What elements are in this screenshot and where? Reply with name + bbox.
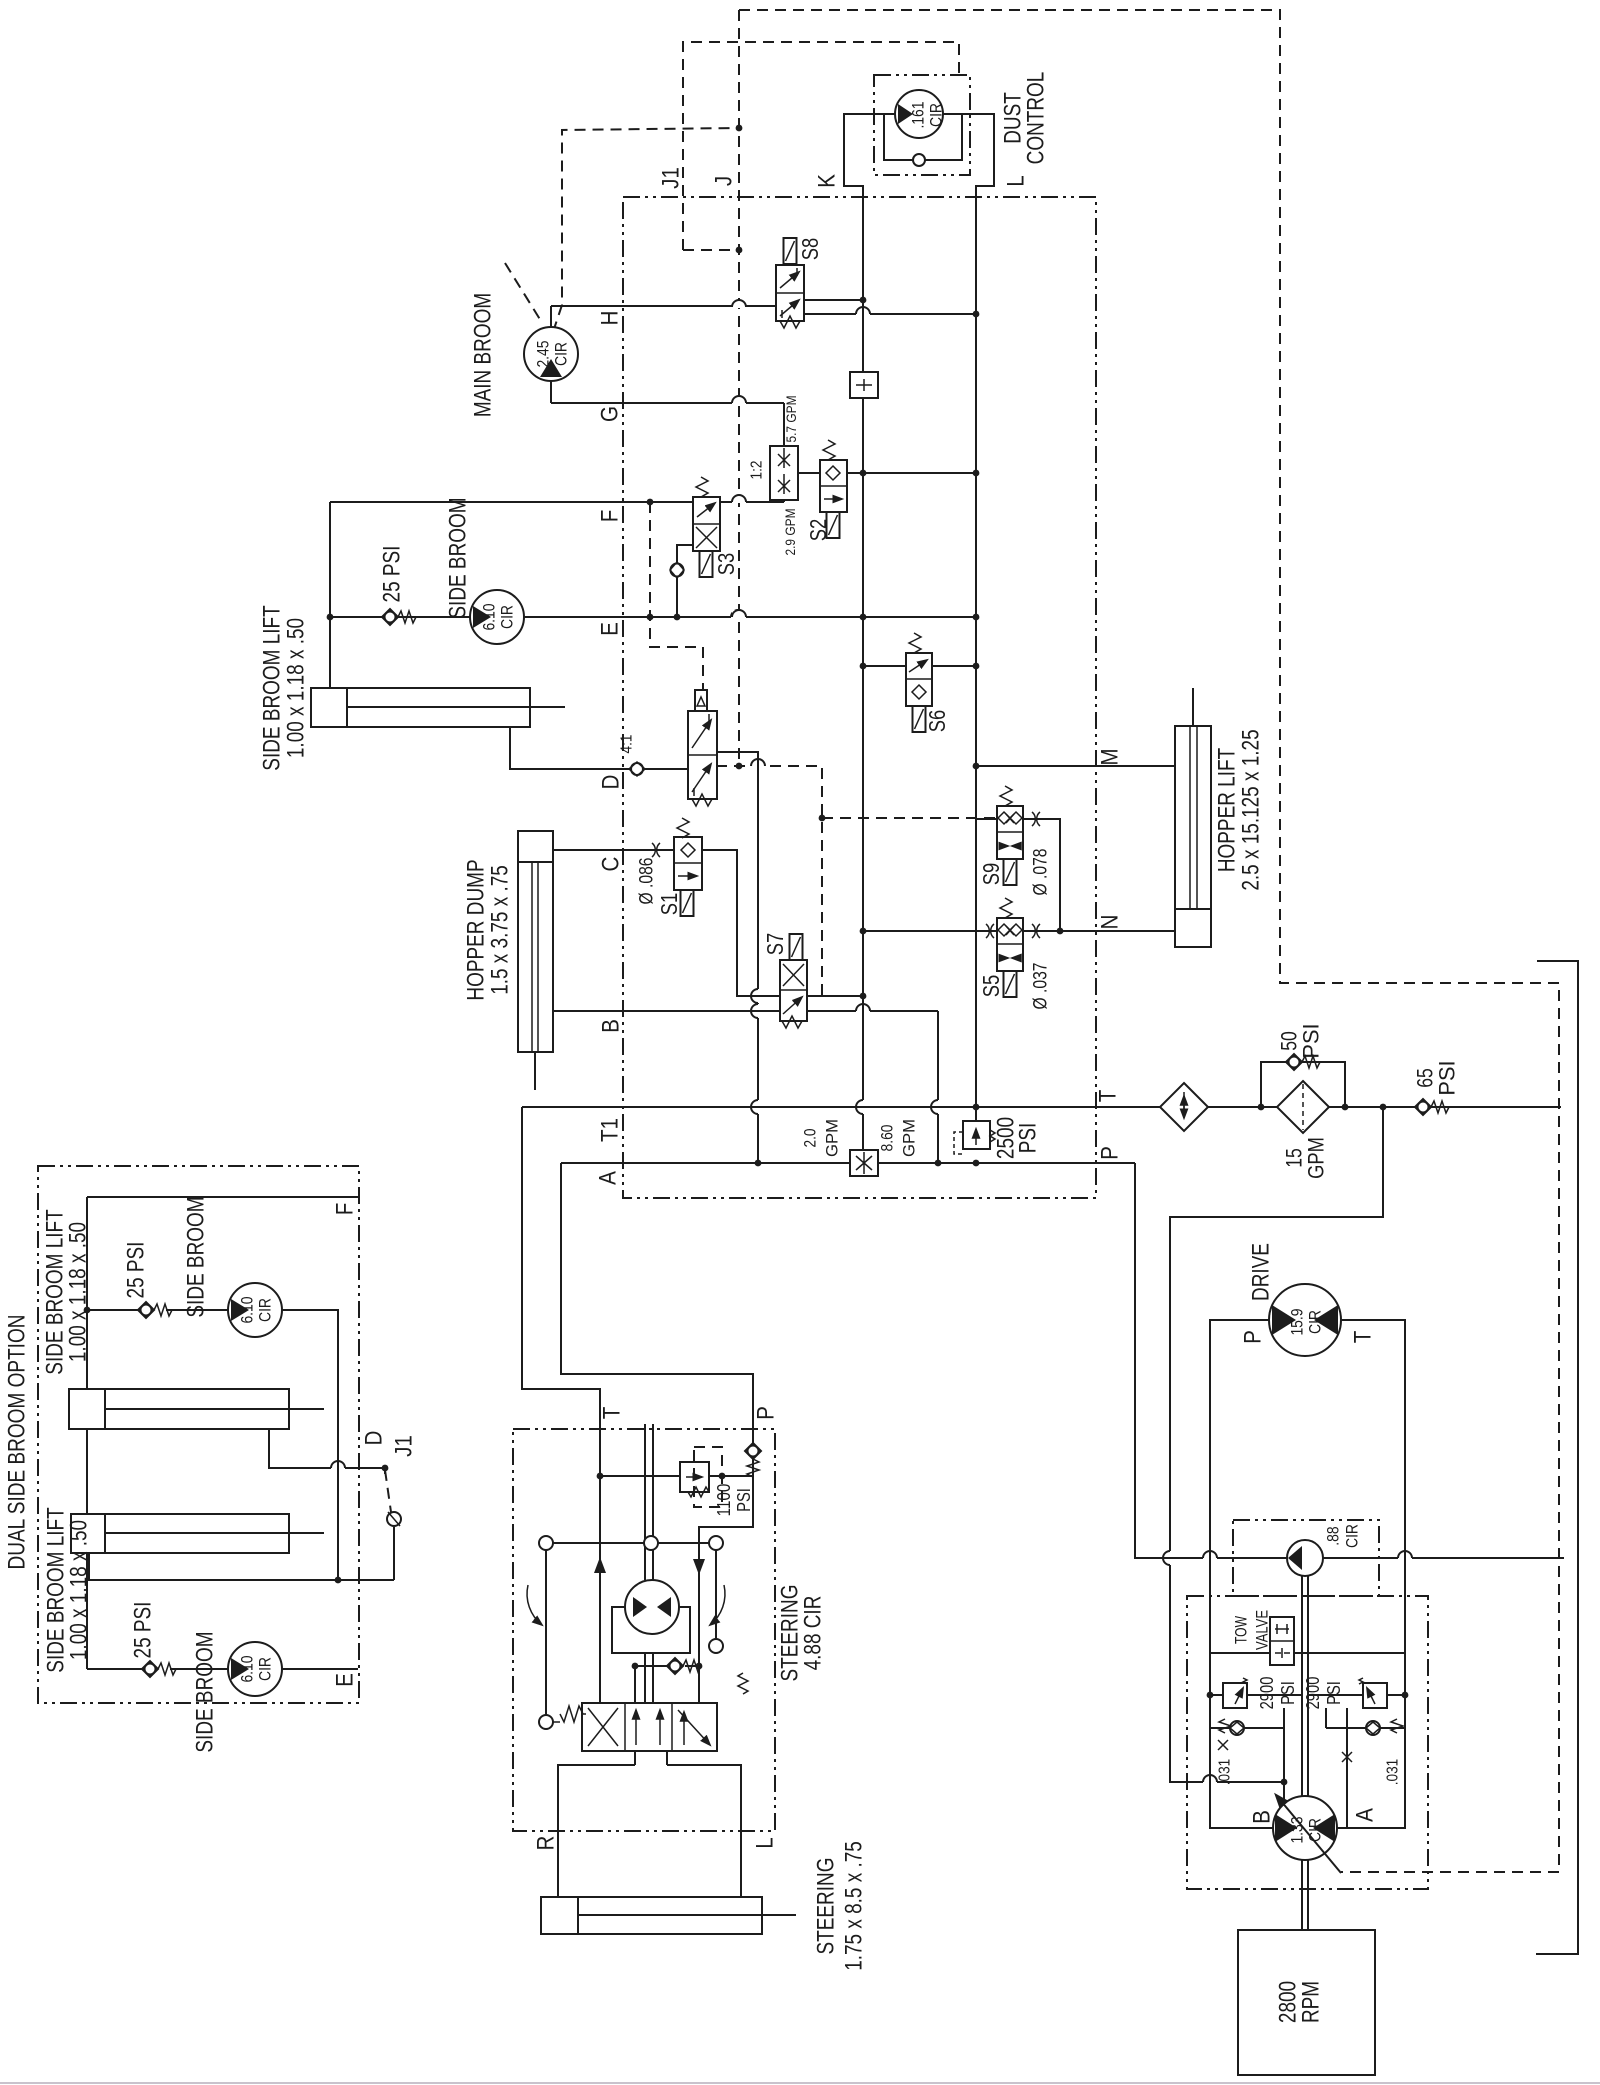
svg-text:K: K	[814, 174, 841, 188]
svg-text:M: M	[1097, 748, 1124, 765]
svg-text:6.10: 6.10	[238, 1655, 257, 1682]
svg-text:CONTROL: CONTROL	[1023, 72, 1050, 165]
svg-text:S9: S9	[978, 863, 1004, 886]
svg-text:T: T	[1350, 1330, 1377, 1343]
svg-text:T: T	[1095, 1089, 1122, 1102]
svg-text:.031: .031	[1385, 1759, 1402, 1786]
svg-text:4:1: 4:1	[619, 734, 636, 753]
svg-text:CIR: CIR	[552, 342, 571, 366]
svg-text:1.00 x 1.18 x .50: 1.00 x 1.18 x .50	[283, 618, 310, 758]
svg-text:F: F	[597, 510, 624, 523]
svg-text:PSI: PSI	[1299, 1023, 1324, 1058]
svg-text:2900: 2900	[1303, 1677, 1323, 1710]
svg-text:2.9 GPM: 2.9 GPM	[782, 509, 798, 556]
svg-text:S8: S8	[797, 238, 823, 261]
svg-text:R: R	[533, 1836, 560, 1851]
svg-text:SIDE BROOM LIFT: SIDE BROOM LIFT	[259, 605, 286, 771]
svg-text:1:2: 1:2	[749, 460, 766, 479]
svg-text:G: G	[597, 406, 624, 422]
svg-text:DUAL SIDE BROOM OPTION: DUAL SIDE BROOM OPTION	[4, 1315, 31, 1570]
svg-text:6.10: 6.10	[480, 603, 499, 630]
svg-text:1.5 x 3.75 x .75: 1.5 x 3.75 x .75	[487, 865, 514, 995]
svg-text:S3: S3	[713, 553, 739, 576]
svg-text:1100: 1100	[714, 1484, 734, 1517]
svg-text:1.75 x 8.5 x .75: 1.75 x 8.5 x .75	[841, 1841, 868, 1971]
svg-text:H: H	[597, 311, 624, 326]
svg-text:2900: 2900	[1257, 1677, 1277, 1710]
svg-text:MAIN BROOM: MAIN BROOM	[470, 293, 497, 417]
svg-text:SIDE BROOM: SIDE BROOM	[183, 1196, 210, 1317]
svg-text:L: L	[1003, 175, 1030, 187]
svg-text:RPM: RPM	[1298, 1981, 1325, 2023]
svg-text:S1: S1	[656, 893, 682, 916]
svg-text:1.00 x 1.18 x .50: 1.00 x 1.18 x .50	[66, 1520, 93, 1660]
svg-text:HOPPER DUMP: HOPPER DUMP	[463, 859, 490, 1000]
svg-text:VALVE: VALVE	[1253, 1610, 1272, 1650]
svg-text:A: A	[1352, 1808, 1379, 1822]
svg-text:.031: .031	[1217, 1759, 1234, 1786]
svg-text:PSI: PSI	[1435, 1060, 1460, 1095]
svg-text:PSI: PSI	[1015, 1123, 1042, 1154]
svg-text:1.33: 1.33	[1288, 1816, 1307, 1843]
svg-text:DRIVE: DRIVE	[1248, 1243, 1275, 1301]
svg-text:J1: J1	[391, 1435, 418, 1457]
svg-text:8.60: 8.60	[878, 1125, 897, 1152]
svg-text:F: F	[332, 1203, 359, 1216]
svg-text:J: J	[711, 176, 738, 186]
svg-text:CIR: CIR	[1343, 1524, 1362, 1548]
svg-text:HOPPER LIFT: HOPPER LIFT	[1214, 748, 1241, 873]
svg-text:25 PSI: 25 PSI	[130, 1602, 157, 1659]
svg-text:P: P	[1240, 1330, 1267, 1344]
svg-text:2.45: 2.45	[534, 340, 553, 367]
svg-text:CIR: CIR	[1306, 1310, 1325, 1334]
svg-text:P: P	[1097, 1146, 1124, 1160]
svg-text:S6: S6	[924, 710, 950, 733]
svg-text:2.0: 2.0	[801, 1129, 820, 1148]
svg-text:B: B	[598, 1019, 625, 1033]
svg-text:25 PSI: 25 PSI	[379, 546, 406, 603]
svg-text:E: E	[332, 1673, 359, 1687]
svg-text:.88: .88	[1324, 1526, 1343, 1545]
svg-text:5.7 GPM: 5.7 GPM	[783, 396, 799, 443]
svg-text:1.00 x 1.18 x .50: 1.00 x 1.18 x .50	[65, 1222, 92, 1362]
svg-text:GPM: GPM	[823, 1119, 842, 1157]
svg-text:E: E	[597, 622, 624, 636]
svg-text:CIR: CIR	[927, 103, 946, 127]
svg-text:C: C	[598, 857, 625, 872]
svg-text:S5: S5	[978, 975, 1004, 998]
svg-text:L: L	[752, 1837, 779, 1849]
svg-text:4.88 CIR: 4.88 CIR	[800, 1596, 827, 1671]
svg-text:SIDE BROOM: SIDE BROOM	[445, 497, 472, 618]
svg-text:2.5 x 15.125 x 1.25: 2.5 x 15.125 x 1.25	[1238, 729, 1265, 890]
svg-text:T: T	[599, 1406, 626, 1419]
svg-text:.161: .161	[909, 101, 928, 128]
svg-text:PSI: PSI	[734, 1488, 754, 1512]
svg-text:CIR: CIR	[256, 1298, 275, 1322]
svg-text:15.9: 15.9	[1288, 1308, 1307, 1335]
svg-text:B: B	[1249, 1810, 1276, 1824]
svg-text:CIR: CIR	[498, 605, 517, 629]
svg-text:N: N	[1097, 915, 1124, 930]
svg-text:A: A	[595, 1171, 622, 1185]
svg-text:25 PSI: 25 PSI	[123, 1242, 150, 1299]
svg-text:J1: J1	[658, 167, 685, 189]
svg-text:TOW: TOW	[1232, 1616, 1251, 1644]
svg-text:Ø .078: Ø .078	[1031, 849, 1052, 896]
svg-text:D: D	[361, 1431, 388, 1446]
svg-text:D: D	[598, 775, 625, 790]
svg-text:S7: S7	[762, 933, 788, 956]
svg-text:6.10: 6.10	[238, 1296, 257, 1323]
svg-text:P: P	[753, 1406, 780, 1420]
svg-text:PSI: PSI	[1278, 1681, 1298, 1705]
svg-text:T1: T1	[597, 1118, 624, 1142]
svg-text:STEERING: STEERING	[813, 1858, 840, 1955]
svg-text:PSI: PSI	[1324, 1681, 1344, 1705]
svg-text:GPM: GPM	[1304, 1137, 1329, 1179]
svg-text:Ø .037: Ø .037	[1031, 963, 1052, 1010]
svg-text:CIR: CIR	[1306, 1818, 1325, 1842]
svg-text:SIDE BROOM: SIDE BROOM	[192, 1631, 219, 1752]
svg-text:GPM: GPM	[900, 1119, 919, 1157]
svg-text:S2: S2	[805, 519, 831, 542]
svg-text:CIR: CIR	[256, 1657, 275, 1681]
svg-text:Ø .086: Ø .086	[637, 858, 658, 905]
